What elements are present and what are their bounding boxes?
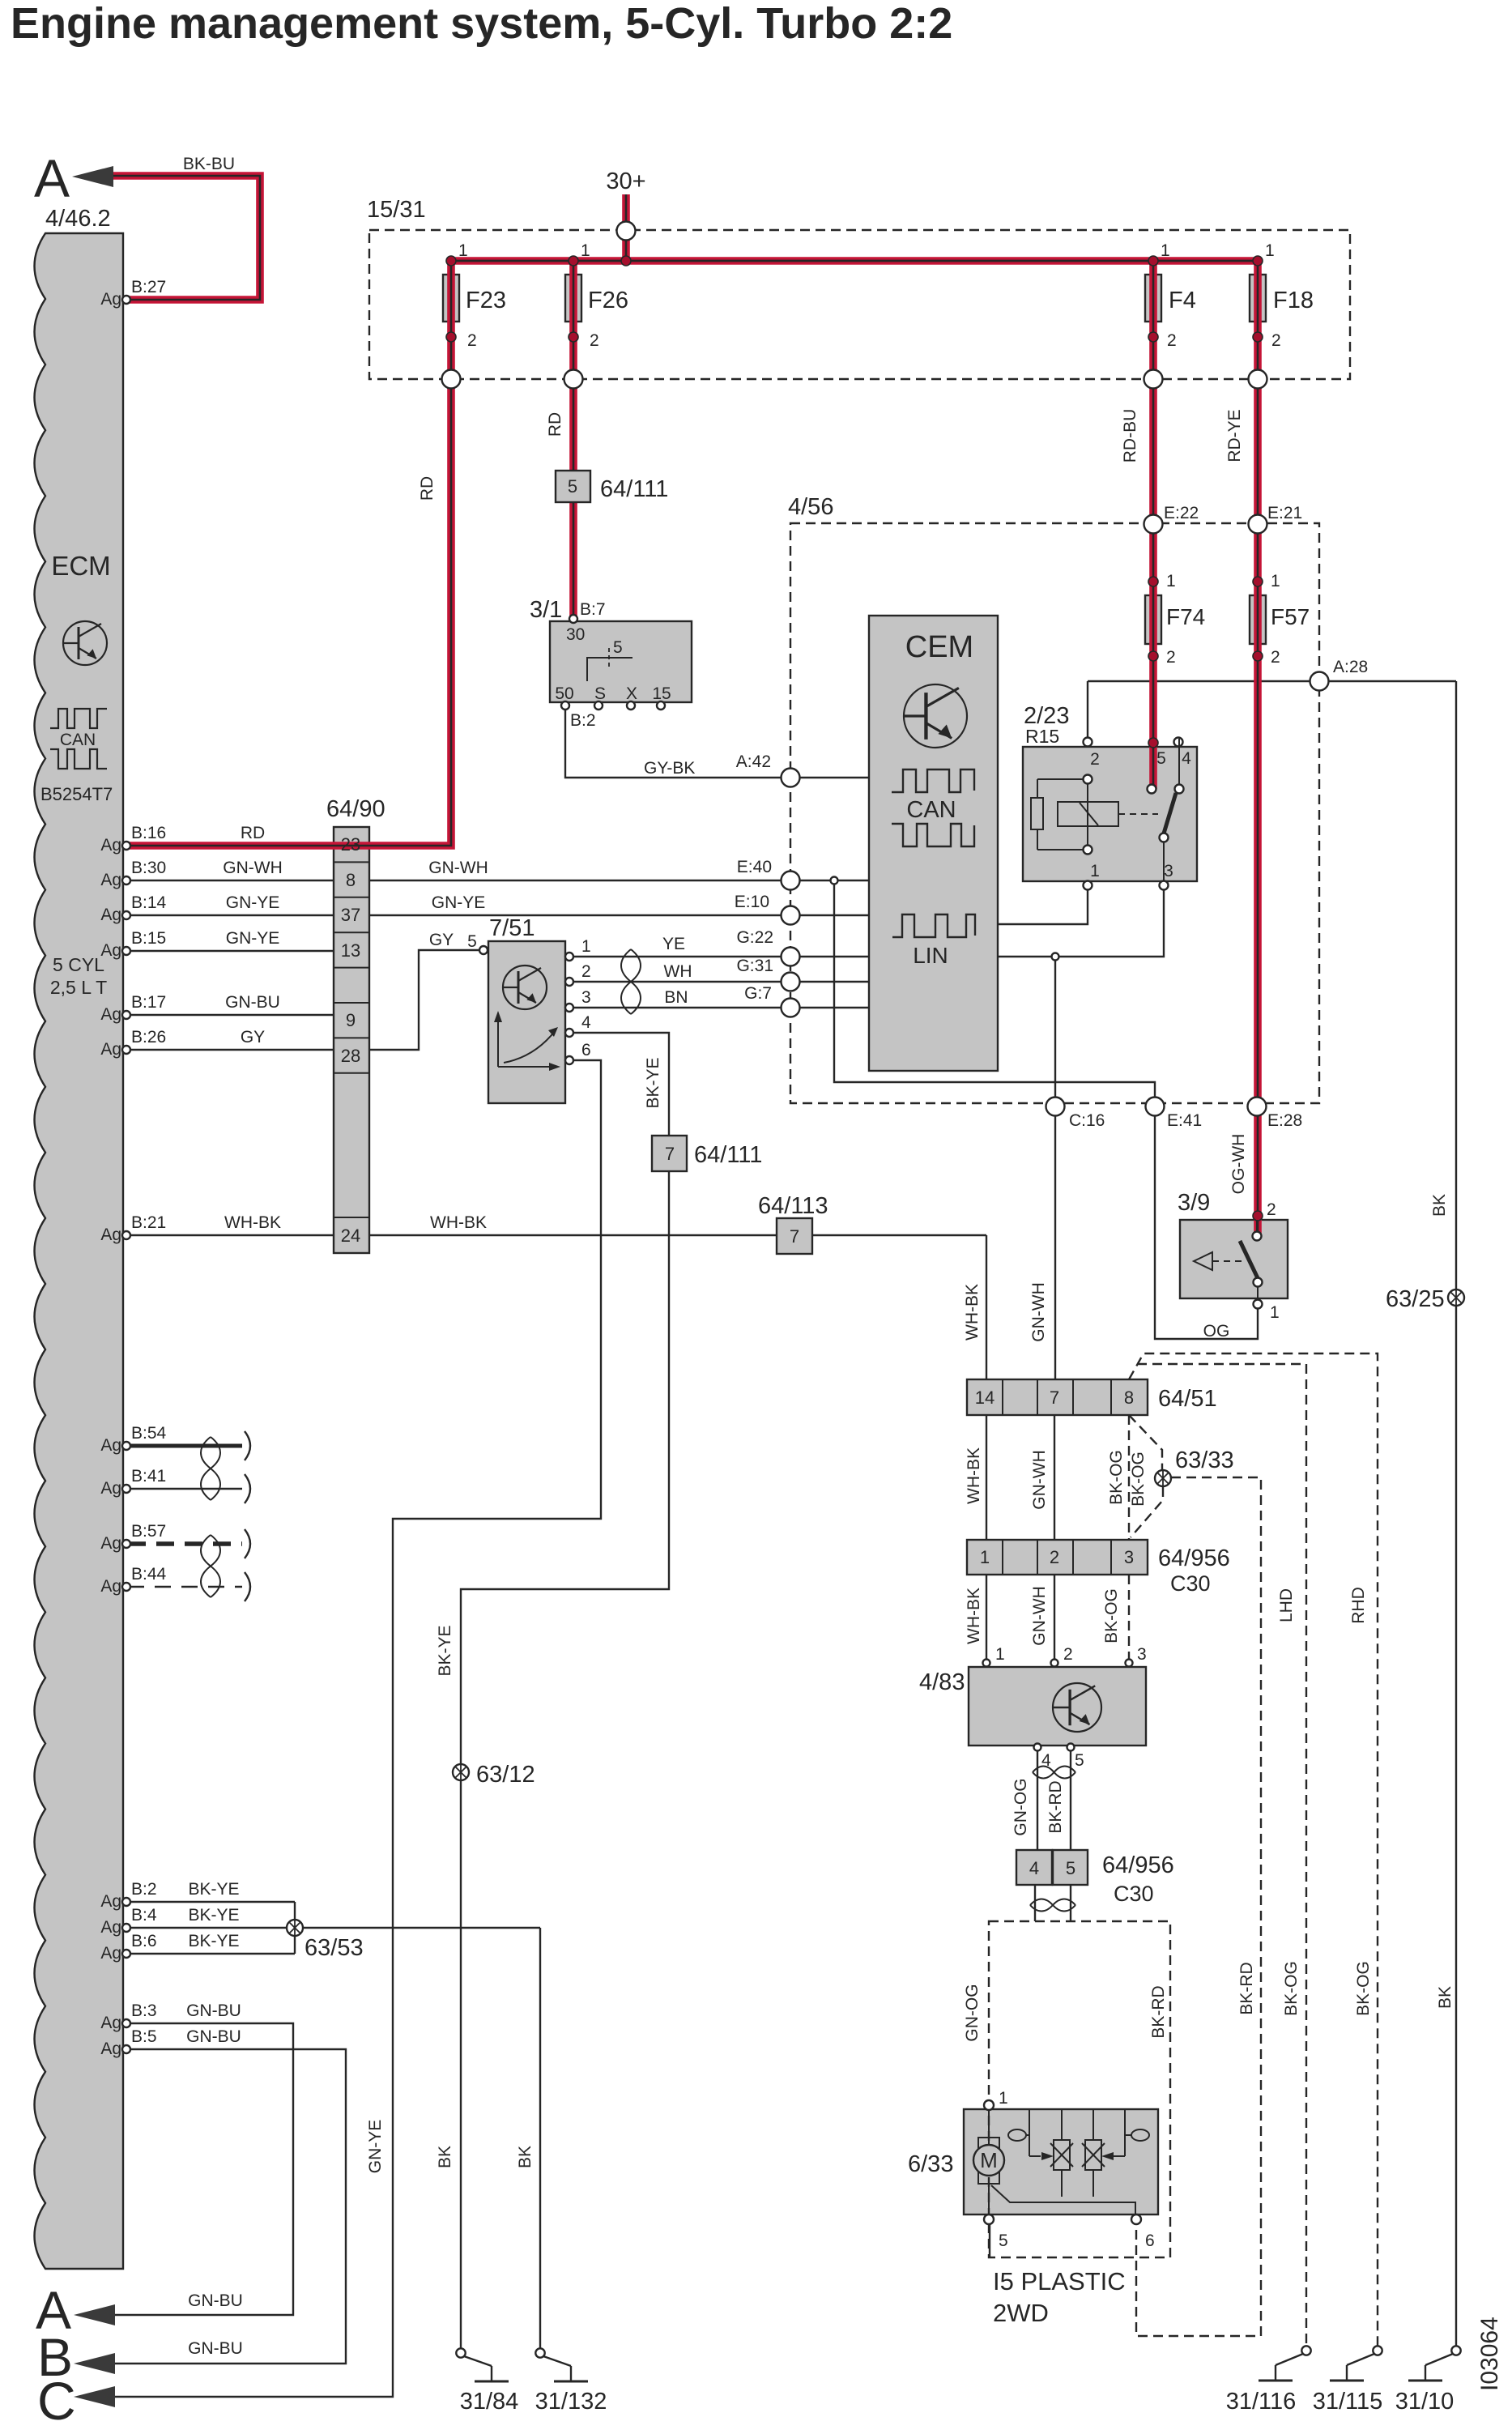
svg-text:7: 7 [1050,1388,1059,1408]
svg-text:7: 7 [665,1144,675,1164]
svg-text:2: 2 [1167,331,1177,350]
svg-text:Ag: Ag [100,1040,121,1059]
svg-text:BK-BU: BK-BU [183,155,235,173]
svg-text:Ag: Ag [100,2040,121,2058]
svg-text:14: 14 [975,1388,995,1408]
svg-text:RD-BU: RD-BU [1121,409,1139,463]
svg-text:Ag: Ag [100,1577,121,1596]
svg-text:B:6: B:6 [131,1932,157,1950]
svg-text:GY: GY [429,931,454,949]
svg-text:GN-WH: GN-WH [428,859,488,877]
svg-text:GN-WH: GN-WH [1030,1586,1049,1645]
svg-text:15: 15 [652,684,671,703]
svg-text:S: S [594,684,606,703]
svg-text:3: 3 [1124,1547,1134,1567]
svg-text:BK-YE: BK-YE [188,1880,239,1899]
svg-text:BK-RD: BK-RD [1149,1985,1168,2038]
svg-text:2: 2 [1166,648,1176,667]
svg-text:1: 1 [581,937,591,956]
svg-text:4/83: 4/83 [919,1669,965,1695]
svg-text:B:44: B:44 [131,1565,167,1584]
svg-text:4: 4 [1182,749,1191,768]
svg-text:Ag: Ag [100,290,121,309]
svg-text:2: 2 [1050,1547,1059,1567]
svg-text:F4: F4 [1169,288,1196,313]
svg-text:RHD: RHD [1349,1587,1368,1624]
svg-text:3: 3 [1164,862,1173,880]
svg-text:RD: RD [241,824,265,842]
svg-text:8: 8 [1124,1388,1134,1408]
svg-text:YE: YE [662,935,685,953]
svg-text:31/84: 31/84 [460,2389,519,2415]
svg-text:1: 1 [1270,1303,1280,1322]
svg-text:GN-WH: GN-WH [1030,1450,1049,1509]
svg-text:31/115: 31/115 [1313,2389,1383,2415]
svg-text:E:21: E:21 [1267,504,1302,522]
svg-text:2: 2 [581,962,591,981]
svg-text:B:5: B:5 [131,2027,157,2046]
svg-text:GN-BU: GN-BU [225,993,280,1012]
svg-text:50: 50 [555,684,573,703]
svg-text:2: 2 [1063,1645,1073,1664]
svg-text:1: 1 [995,1645,1005,1664]
svg-text:Ag: Ag [100,1226,121,1244]
svg-text:BK-RD: BK-RD [1237,1962,1256,2014]
svg-text:GY-BK: GY-BK [644,759,695,778]
svg-text:CAN: CAN [906,797,956,823]
svg-text:2: 2 [467,331,477,350]
svg-text:B:2: B:2 [131,1880,157,1899]
svg-text:Ag: Ag [100,2014,121,2032]
svg-text:Ag: Ag [100,1892,121,1911]
svg-text:Ag: Ag [100,1918,121,1937]
svg-text:31/10: 31/10 [1395,2389,1455,2415]
svg-text:LHD: LHD [1277,1588,1296,1622]
svg-text:7: 7 [790,1226,799,1247]
svg-text:CAN: CAN [60,731,96,749]
svg-text:B:15: B:15 [131,929,166,948]
svg-text:B5254T7: B5254T7 [40,784,113,804]
svg-text:BK-RD: BK-RD [1046,1780,1065,1833]
svg-text:R15: R15 [1025,726,1059,747]
svg-text:B:4: B:4 [131,1906,157,1925]
svg-text:GN-YE: GN-YE [226,929,280,948]
svg-text:GN-OG: GN-OG [1012,1778,1030,1835]
svg-text:BN: BN [664,988,688,1007]
svg-text:4: 4 [1041,1751,1051,1770]
svg-text:5: 5 [613,638,623,657]
svg-text:Ag: Ag [100,1479,121,1498]
svg-text:CEM: CEM [905,630,973,664]
svg-text:BK-YE: BK-YE [644,1057,662,1108]
svg-text:5: 5 [568,476,577,497]
svg-text:63/53: 63/53 [305,1935,364,1961]
svg-text:C30: C30 [1114,1882,1154,1906]
svg-text:2WD: 2WD [993,2299,1049,2327]
svg-text:OG: OG [1203,1322,1230,1341]
svg-text:BK-YE: BK-YE [188,1906,239,1925]
svg-text:B:26: B:26 [131,1028,166,1046]
svg-text:Engine management system, 5-Cy: Engine management system, 5-Cyl. Turbo 2… [11,0,952,48]
svg-text:GN-BU: GN-BU [188,2291,243,2310]
svg-text:Ag: Ag [100,1436,121,1455]
svg-text:64/956: 64/956 [1158,1545,1230,1571]
svg-text:GN-BU: GN-BU [186,2027,241,2046]
svg-text:BK: BK [516,2146,535,2168]
svg-text:X: X [626,684,637,703]
svg-text:F26: F26 [588,288,628,313]
svg-text:6/33: 6/33 [908,2151,953,2177]
svg-text:BK: BK [1430,1194,1449,1217]
svg-text:5: 5 [999,2232,1008,2250]
svg-text:2,5 L T: 2,5 L T [50,977,107,998]
svg-text:GN-YE: GN-YE [432,893,486,912]
svg-text:64/111: 64/111 [694,1142,762,1168]
svg-text:LIN: LIN [913,943,948,968]
svg-text:G:7: G:7 [744,984,772,1003]
svg-text:F74: F74 [1166,604,1205,629]
svg-text:I5 PLASTIC: I5 PLASTIC [993,2267,1126,2295]
svg-text:63/25: 63/25 [1386,1286,1445,1312]
svg-text:WH-BK: WH-BK [430,1213,487,1232]
svg-text:RD: RD [546,412,564,437]
svg-text:2: 2 [1090,750,1100,769]
svg-text:30: 30 [566,625,585,644]
svg-text:6: 6 [581,1041,591,1059]
svg-text:23: 23 [341,834,360,855]
svg-text:WH-BK: WH-BK [965,1588,983,1644]
svg-text:4: 4 [1029,1858,1039,1878]
svg-text:15/31: 15/31 [367,197,426,223]
svg-text:B:41: B:41 [131,1467,166,1486]
svg-text:1: 1 [999,2089,1008,2108]
svg-text:1: 1 [1265,241,1275,260]
svg-text:WH: WH [664,962,692,981]
svg-text:GN-OG: GN-OG [963,1984,982,2041]
svg-text:G:22: G:22 [736,928,773,947]
svg-text:E:10: E:10 [735,893,769,911]
svg-text:ECM: ECM [51,551,110,581]
svg-text:Ag: Ag [100,1005,121,1024]
svg-text:C30: C30 [1170,1571,1211,1596]
svg-text:B:2: B:2 [570,711,596,730]
svg-text:I03064: I03064 [1476,2317,1503,2391]
svg-text:7/51: 7/51 [489,915,535,941]
svg-text:B:7: B:7 [580,600,606,619]
svg-text:BK: BK [1436,1986,1455,2009]
svg-text:64/113: 64/113 [758,1193,828,1219]
svg-text:1: 1 [581,241,590,260]
svg-text:E:22: E:22 [1164,504,1199,522]
svg-text:F18: F18 [1273,288,1314,313]
svg-text:E:41: E:41 [1167,1111,1202,1130]
svg-text:1: 1 [1271,572,1280,590]
svg-text:GY: GY [241,1028,265,1046]
svg-text:63/12: 63/12 [476,1762,535,1788]
svg-text:4: 4 [581,1013,591,1032]
svg-text:C:16: C:16 [1069,1111,1105,1130]
svg-text:BK: BK [436,2146,454,2168]
svg-text:2: 2 [1267,1200,1276,1219]
svg-text:B:57: B:57 [131,1522,166,1541]
svg-text:64/956: 64/956 [1102,1852,1174,1878]
svg-text:GN-WH: GN-WH [223,859,282,877]
svg-text:Ag: Ag [100,871,121,889]
svg-text:B:3: B:3 [131,2001,157,2020]
svg-text:6: 6 [1145,2232,1155,2250]
svg-text:WH-BK: WH-BK [224,1213,281,1232]
svg-text:3: 3 [1137,1645,1147,1664]
svg-text:BK-OG: BK-OG [1354,1961,1373,2016]
svg-text:8: 8 [346,870,356,890]
svg-text:3/9: 3/9 [1178,1190,1210,1216]
svg-text:WH-BK: WH-BK [963,1284,982,1341]
svg-text:1: 1 [458,241,468,260]
svg-text:5: 5 [1066,1858,1075,1878]
svg-text:1: 1 [980,1547,990,1567]
svg-text:A: A [34,148,70,208]
svg-text:A:28: A:28 [1333,658,1368,676]
svg-text:E:40: E:40 [737,858,772,876]
svg-text:F23: F23 [466,288,506,313]
svg-text:13: 13 [341,940,360,961]
svg-text:BK-OG: BK-OG [1102,1588,1121,1643]
svg-text:4/56: 4/56 [788,494,833,520]
svg-text:31/116: 31/116 [1226,2389,1297,2415]
svg-text:2: 2 [590,331,599,350]
svg-text:B:54: B:54 [131,1424,167,1443]
svg-text:B:27: B:27 [131,278,166,296]
svg-text:37: 37 [341,905,360,925]
svg-text:OG-WH: OG-WH [1229,1134,1248,1195]
svg-text:64/51: 64/51 [1158,1386,1217,1412]
svg-text:Ag: Ag [100,941,121,960]
svg-text:31/132: 31/132 [535,2389,607,2415]
svg-text:24: 24 [341,1226,360,1246]
svg-text:1: 1 [1166,572,1176,590]
svg-text:5: 5 [467,932,477,951]
svg-text:GN-BU: GN-BU [188,2339,243,2358]
svg-text:GN-YE: GN-YE [366,2120,385,2174]
svg-text:30+: 30+ [606,168,645,194]
svg-text:B:30: B:30 [131,859,166,877]
svg-text:RD: RD [418,476,437,501]
svg-text:Ag: Ag [100,1534,121,1553]
svg-text:9: 9 [346,1010,356,1030]
svg-text:1: 1 [1090,862,1100,880]
svg-text:RD-YE: RD-YE [1225,409,1244,462]
svg-text:Ag: Ag [100,1944,121,1963]
svg-text:2: 2 [1271,331,1281,350]
svg-text:BK-YE: BK-YE [188,1932,239,1950]
svg-text:64/111: 64/111 [600,476,668,502]
svg-text:3: 3 [581,988,591,1007]
svg-text:4/46.2: 4/46.2 [45,206,111,232]
svg-text:63/33: 63/33 [1175,1447,1234,1473]
svg-text:GN-BU: GN-BU [186,2001,241,2020]
svg-text:GN-WH: GN-WH [1029,1282,1048,1341]
svg-text:5 CYL: 5 CYL [53,954,104,975]
svg-text:BK-YE: BK-YE [436,1625,454,1676]
svg-text:5: 5 [1075,1751,1084,1770]
svg-text:BK-OG: BK-OG [1129,1451,1148,1507]
svg-text:WH-BK: WH-BK [965,1447,983,1504]
svg-text:64/90: 64/90 [326,796,385,822]
svg-text:28: 28 [341,1046,360,1066]
svg-text:5: 5 [1156,749,1166,768]
svg-text:E:28: E:28 [1267,1111,1302,1130]
svg-text:A:42: A:42 [736,752,771,771]
svg-text:G:31: G:31 [736,957,773,975]
svg-text:B:17: B:17 [131,993,166,1012]
svg-text:BK-OG: BK-OG [1107,1450,1126,1505]
svg-text:Ag: Ag [100,906,121,924]
svg-text:GN-YE: GN-YE [226,893,280,912]
svg-text:BK-OG: BK-OG [1282,1961,1301,2016]
svg-text:Ag: Ag [100,836,121,855]
svg-text:B:14: B:14 [131,893,167,912]
svg-text:1: 1 [1161,241,1170,260]
svg-text:3/1: 3/1 [530,597,562,623]
svg-text:C: C [37,2371,76,2430]
svg-text:2: 2 [1271,648,1280,667]
svg-text:B:16: B:16 [131,824,166,842]
svg-text:B:21: B:21 [131,1213,166,1232]
svg-text:F57: F57 [1271,604,1310,629]
svg-text:M: M [980,2148,998,2172]
